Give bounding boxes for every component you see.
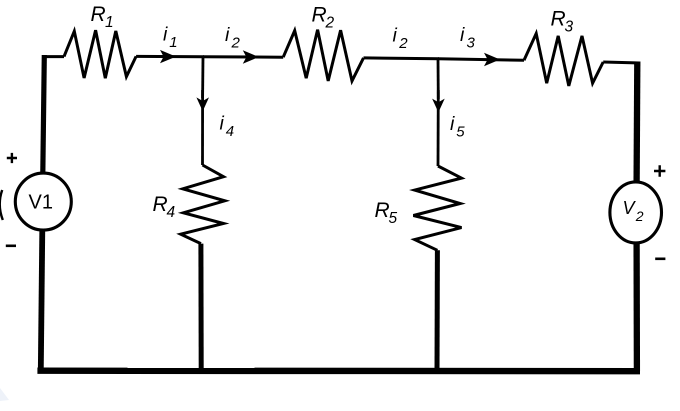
wire R4 to bottom	[198, 244, 203, 371]
svg-text:i: i	[460, 24, 465, 46]
wire R1 to node A	[136, 55, 204, 58]
resistor R3	[524, 34, 603, 86]
svg-text:R: R	[91, 3, 106, 26]
node B junction	[437, 59, 440, 99]
resistor R2	[283, 30, 363, 81]
svg-text:R: R	[312, 4, 327, 27]
i5 label	[450, 113, 465, 141]
svg-text:1: 1	[105, 14, 114, 31]
svg-text:i: i	[163, 24, 168, 46]
i4 label	[220, 113, 235, 141]
svg-text:2: 2	[325, 15, 335, 32]
R1 label	[91, 3, 114, 31]
V1 minus sign	[6, 245, 16, 248]
current arrow i1	[160, 50, 176, 63]
V1 plus sign	[7, 153, 17, 163]
R3 label	[551, 8, 574, 36]
R4 label	[153, 193, 176, 221]
wire node B to R3	[438, 59, 524, 60]
i1 label	[163, 24, 178, 52]
R5 label	[375, 199, 398, 227]
bottom bus wire	[37, 368, 640, 375]
i3 label	[460, 24, 476, 52]
current arrow i5	[432, 99, 445, 113]
node B to R5 wire	[437, 90, 440, 166]
resistor R5	[413, 166, 461, 250]
svg-text:R: R	[153, 193, 168, 216]
svg-text:2: 2	[635, 208, 644, 224]
svg-text:V1: V1	[29, 192, 53, 214]
edge arc fragment left	[0, 190, 3, 220]
current arrow i4	[196, 97, 209, 111]
wire left vertical upper	[43, 55, 45, 174]
wire top stub left	[43, 55, 64, 58]
svg-text:3: 3	[565, 19, 574, 36]
i2 label (left)	[225, 24, 241, 52]
svg-text:i: i	[450, 113, 455, 135]
current arrow i2	[243, 50, 259, 63]
svg-text:R: R	[551, 8, 566, 31]
svg-text:R: R	[375, 199, 390, 222]
svg-text:4: 4	[226, 123, 234, 140]
V2 plus sign	[654, 165, 665, 176]
R2 label	[312, 4, 335, 32]
wire right vertical lower	[633, 242, 640, 371]
voltage source V1	[15, 173, 71, 230]
V2 value label	[623, 198, 644, 224]
wire left vertical lower	[41, 229, 43, 370]
wire R5 to bottom	[435, 250, 440, 371]
svg-text:i: i	[393, 25, 398, 47]
node A junction	[201, 57, 204, 98]
wire right vertical upper	[633, 62, 640, 184]
svg-text:i: i	[220, 113, 225, 135]
svg-text:4: 4	[167, 204, 176, 221]
node A to R4 wire	[201, 90, 204, 165]
wire R2 to node B	[364, 56, 440, 60]
svg-text:1: 1	[169, 34, 177, 51]
svg-text:2: 2	[398, 35, 408, 52]
svg-text:5: 5	[456, 124, 465, 141]
resistor R1	[64, 30, 136, 78]
wire node A to R2	[203, 55, 283, 58]
i2 label (right)	[393, 25, 409, 53]
svg-text:2: 2	[231, 35, 241, 52]
current arrow i3	[484, 53, 500, 66]
voltage source V2	[610, 182, 662, 243]
svg-text:5: 5	[389, 210, 398, 227]
V2 minus sign	[655, 257, 665, 260]
svg-text:V: V	[623, 198, 637, 218]
page curl artifact bottom-left	[0, 388, 9, 401]
resistor R4	[181, 165, 225, 244]
wire R3 to top-right corner	[603, 62, 639, 63]
svg-text:3: 3	[467, 35, 476, 52]
svg-text:i: i	[225, 24, 230, 46]
